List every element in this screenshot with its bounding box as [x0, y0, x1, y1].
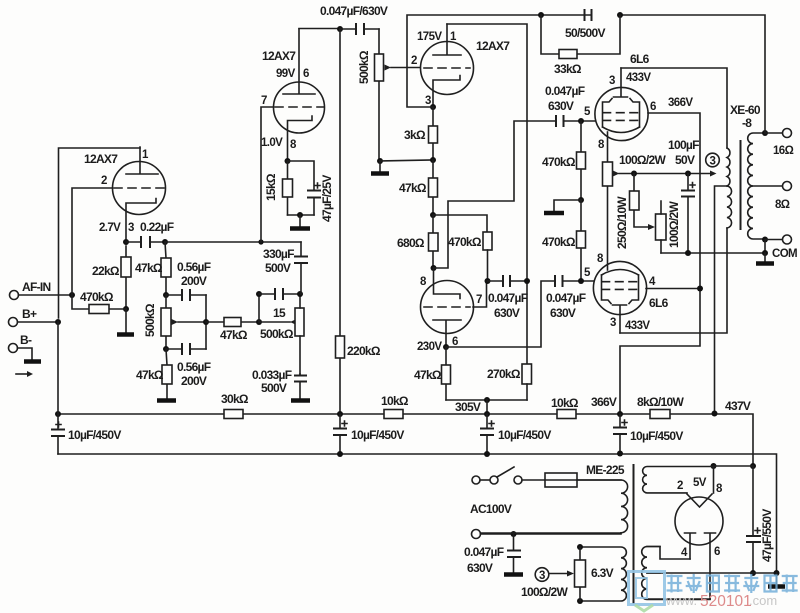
- node bus 10uF3: [484, 451, 490, 457]
- node return/bus corner: [774, 570, 780, 576]
- node after 0.22uF: [162, 239, 168, 245]
- 6L6 upper grids (dashed): [603, 112, 639, 114]
- marker circle 3: [706, 153, 720, 167]
- wire AC lower to primary: [481, 533, 622, 535]
- svg-text:0.033µF: 0.033µF: [252, 368, 292, 382]
- svg-text:AC100V: AC100V: [470, 502, 512, 516]
- wire cathode return line: [661, 252, 765, 254]
- svg-text:433V: 433V: [626, 72, 651, 84]
- OPT secondary winding: [748, 133, 765, 239]
- node V1 cathode junction: [123, 239, 129, 245]
- wire wiper line: [619, 173, 710, 175]
- resistor 680: [397, 215, 438, 268]
- wire grid riser V2: [261, 107, 275, 242]
- wire 0.56 caps bridge: [205, 295, 207, 349]
- svg-text:10µF/450V: 10µF/450V: [630, 429, 683, 443]
- resistor 47k (V4 plate load): [414, 347, 451, 400]
- tube V4 12AX7 envelope: [421, 281, 474, 334]
- svg-text:XE-60: XE-60: [730, 103, 761, 117]
- ground 0.033uF: [291, 398, 310, 403]
- wire V3 plate to x527: [447, 24, 527, 364]
- svg-text:470kΩ: 470kΩ: [542, 155, 576, 169]
- resistor 30k: [221, 392, 249, 419]
- svg-text:www.: www.: [665, 593, 697, 608]
- wire B+ riser to plate: [59, 148, 141, 318]
- svg-text:12AX7: 12AX7: [84, 152, 118, 166]
- capacitor 47uF/25V: [288, 161, 335, 222]
- node 22k/470k junction: [123, 306, 129, 312]
- arrow to mark 3: [710, 171, 717, 177]
- svg-text:12AX7: 12AX7: [262, 49, 296, 63]
- 6L6 upper cathode cup: [603, 127, 640, 133]
- node V4 grid junction: [485, 278, 491, 284]
- node B+ junction: [55, 319, 61, 325]
- capacitor 0.047uF/630V (lower 6L6 grid): [546, 275, 596, 320]
- svg-text:0.22µF: 0.22µF: [140, 220, 174, 234]
- wire V4 plate coupling to lower 6L6: [446, 281, 555, 347]
- wire V2 plate to coupling: [299, 28, 340, 30]
- 6L6 lower beam plates: [602, 275, 639, 304]
- svg-text:200V: 200V: [181, 274, 207, 288]
- resistor 3k: [404, 107, 438, 160]
- svg-text:270kΩ: 270kΩ: [487, 367, 521, 381]
- potentiometer 500k (left): [143, 295, 206, 349]
- svg-text:5V: 5V: [693, 477, 707, 489]
- tube V1 plate: [126, 147, 158, 174]
- node 47k/680 junction: [430, 212, 436, 218]
- svg-text:15: 15: [273, 306, 286, 320]
- svg-text:366V: 366V: [591, 395, 617, 409]
- 6L6 upper cathode lead: [607, 132, 609, 162]
- wire upper plate to OPT: [621, 68, 727, 148]
- svg-text:630V: 630V: [467, 561, 493, 575]
- node bridge/wiper: [203, 319, 209, 325]
- ground 47k: [157, 398, 176, 403]
- resistor 220k: [336, 29, 381, 414]
- svg-text:500V: 500V: [265, 261, 291, 275]
- wire B+ rail: [58, 414, 753, 466]
- svg-text:680Ω: 680Ω: [397, 236, 425, 250]
- node AF-IN junction: [69, 292, 75, 298]
- node 3k bottom (ground tap): [430, 157, 436, 163]
- capacitor 15: [259, 288, 299, 320]
- rectifier plate 2: [705, 533, 716, 599]
- svg-text:0.047µF: 0.047µF: [545, 84, 585, 98]
- node 100uF bottom: [685, 250, 691, 256]
- svg-text:-8: -8: [742, 116, 752, 130]
- terminal 16 ohm: [773, 129, 794, 158]
- svg-text:7: 7: [476, 294, 482, 306]
- svg-text:100Ω/2W: 100Ω/2W: [619, 153, 666, 167]
- node rail left: [55, 411, 61, 417]
- node 220k rail: [337, 411, 343, 417]
- tube 6L6 lower envelope: [593, 261, 646, 314]
- svg-text:366V: 366V: [668, 97, 693, 109]
- svg-text:ME-225: ME-225: [586, 463, 625, 477]
- tube V4 cathode (top): [434, 268, 461, 299]
- node 366V rail: [617, 411, 623, 417]
- svg-text:2: 2: [677, 480, 683, 492]
- svg-text:220kΩ: 220kΩ: [347, 344, 381, 358]
- svg-text:500V: 500V: [261, 381, 287, 395]
- svg-text:COM: COM: [772, 248, 797, 260]
- node wiper line / riser: [256, 319, 262, 325]
- svg-text:10kΩ: 10kΩ: [381, 394, 409, 408]
- node filament left: [711, 463, 717, 469]
- OPT primary winding: [727, 148, 732, 228]
- capacitor 10uF/450V (1): [51, 414, 121, 454]
- node COM tap: [762, 237, 768, 243]
- node pot bottom / ground line: [377, 158, 383, 164]
- node lower 6L6 grid: [578, 278, 584, 284]
- ground AC cap: [504, 572, 523, 577]
- switch AC: [472, 467, 522, 484]
- 6L6 lower plate: [613, 305, 627, 333]
- wire COM tap: [765, 240, 783, 254]
- node 680 bottom: [431, 265, 437, 271]
- tube 6L6 upper envelope: [595, 87, 648, 140]
- resistor 22k: [92, 246, 131, 309]
- tube V3 cathode: [433, 76, 460, 108]
- node grid tap V2: [258, 239, 263, 244]
- resistor 8k/10W: [637, 395, 684, 419]
- terminal COM: [772, 235, 797, 260]
- ME HV winding: [642, 547, 710, 600]
- resistor 470k input: [72, 290, 126, 314]
- wire ground bus: [58, 454, 777, 573]
- capacitor 0.033uF/500V: [252, 368, 307, 399]
- svg-text:8Ω: 8Ω: [775, 199, 790, 211]
- node heater pot bottom: [577, 598, 583, 604]
- capacitor 10uF/450V (4): [613, 414, 683, 453]
- svg-text:100Ω/2W: 100Ω/2W: [521, 585, 568, 599]
- terminal AC lower: [472, 530, 481, 539]
- capacitor 50/500V: [541, 9, 606, 40]
- resistor 470k (V4 grid leak): [448, 232, 492, 281]
- svg-text:6: 6: [650, 101, 656, 113]
- terminal B-: [9, 333, 32, 353]
- node NFB left: [538, 12, 544, 18]
- svg-text:3: 3: [609, 75, 615, 87]
- wire wiper line to pot2: [259, 321, 290, 323]
- OPT core: [740, 140, 742, 230]
- tube V3 plate: [433, 24, 461, 55]
- svg-text:47µF/550V: 47µF/550V: [760, 509, 774, 562]
- svg-text:437V: 437V: [725, 399, 751, 413]
- node 305V rail: [484, 411, 490, 417]
- wire AF-IN to grid riser: [19, 294, 73, 296]
- svg-text:470kΩ: 470kΩ: [80, 290, 114, 304]
- terminal B+: [9, 307, 37, 327]
- wire cathode network bottom: [288, 214, 315, 216]
- node 305V line: [484, 397, 490, 403]
- wire lower screen pin4: [646, 288, 700, 290]
- capacitor 0.047uF/630V (V3 to V4): [488, 275, 528, 320]
- node plate/220k: [337, 26, 343, 32]
- ground main: [776, 573, 778, 585]
- svg-text:6L6: 6L6: [630, 52, 650, 66]
- svg-text:47kΩ: 47kΩ: [414, 368, 442, 382]
- capacitor 100uF/50V: [668, 138, 699, 253]
- wire B+ riser left: [57, 322, 59, 414]
- node riser top: [256, 291, 262, 297]
- svg-text:100Ω/2W: 100Ω/2W: [667, 201, 681, 248]
- capacitor 0.047uF/630V (upper 6L6 grid): [545, 84, 598, 127]
- svg-text:200V: 200V: [181, 374, 207, 388]
- resistor 470k lower: [542, 200, 586, 281]
- svg-text:3: 3: [425, 95, 431, 107]
- svg-text:470kΩ: 470kΩ: [448, 235, 482, 249]
- resistor 47k (middle horizontal): [206, 318, 259, 343]
- tube V2 cathode: [288, 116, 313, 161]
- node 16 ohm tap: [762, 130, 768, 136]
- potentiometer 100R/2W bias: [648, 201, 681, 253]
- tube V4 grid (dashed): [424, 306, 470, 308]
- wire lower plate to OPT: [620, 228, 727, 333]
- ground pot500k: [379, 161, 381, 172]
- node COM/return: [762, 250, 768, 256]
- wire riser to 15 cap line: [258, 294, 260, 322]
- wire plate1 to HV top: [647, 547, 690, 560]
- svg-text:500kΩ: 500kΩ: [143, 303, 157, 337]
- node 47k bottom: [163, 292, 169, 298]
- svg-text:630V: 630V: [548, 99, 574, 113]
- tube V1 cathode: [126, 199, 156, 243]
- node bus 10uF4: [617, 451, 623, 457]
- svg-text:305V: 305V: [455, 400, 481, 414]
- rectifier plate 1: [685, 533, 696, 559]
- tube V2 grid (dashed): [275, 106, 324, 108]
- node V3 cathode junction: [430, 104, 436, 110]
- ME primary winding: [481, 480, 628, 533]
- tube V1 grid (dashed): [114, 187, 164, 189]
- svg-text:175V: 175V: [417, 31, 442, 43]
- potentiometer 500k (right): [260, 294, 304, 374]
- ME 6.3V winding: [580, 547, 626, 601]
- svg-text:B+: B+: [22, 307, 37, 321]
- svg-text:0.047µF: 0.047µF: [488, 291, 528, 305]
- wire filament to B+ riser: [714, 465, 754, 467]
- wire V4 grid to junction: [473, 281, 487, 307]
- wire ground line to V3 cathode chain: [380, 160, 433, 161]
- svg-text:3: 3: [710, 156, 716, 168]
- potentiometer 100R/2W heater: [521, 547, 586, 601]
- svg-text:33kΩ: 33kΩ: [554, 62, 582, 76]
- svg-text:50/500V: 50/500V: [565, 26, 606, 40]
- svg-text:47kΩ: 47kΩ: [136, 368, 164, 382]
- svg-text:47kΩ: 47kΩ: [135, 261, 163, 275]
- capacitor 47uF/550V: [746, 466, 774, 573]
- svg-text:0.047µF: 0.047µF: [464, 545, 504, 559]
- capacitor 0.047uF/630V (AC line): [464, 534, 521, 575]
- node AC cap tap: [511, 531, 517, 537]
- tube V2 12AX7 envelope: [274, 82, 325, 133]
- svg-text:500kΩ: 500kΩ: [260, 327, 294, 341]
- tube V2 plate: [283, 29, 315, 94]
- svg-text:6L6: 6L6: [649, 296, 669, 310]
- 6L6 lower cathode cup: [602, 270, 639, 276]
- svg-text:1.0V: 1.0V: [261, 137, 283, 149]
- 6L6 upper plate: [614, 68, 628, 97]
- ME core: [633, 464, 635, 604]
- svg-text:520101: 520101: [700, 593, 752, 610]
- OPT primary center tap: [715, 186, 728, 414]
- svg-text:3: 3: [128, 222, 134, 234]
- resistor 33k: [541, 15, 620, 76]
- capacitor 10uF/450V (2): [333, 414, 404, 454]
- ground 470k pair: [554, 200, 581, 211]
- svg-text:30kΩ: 30kΩ: [221, 392, 249, 406]
- svg-text:47kΩ: 47kΩ: [220, 328, 248, 342]
- resistor 10k (2): [551, 396, 579, 419]
- resistor 47k (below pot): [136, 349, 172, 399]
- svg-text:8kΩ/10W: 8kΩ/10W: [637, 395, 684, 409]
- svg-text:630V: 630V: [550, 306, 576, 320]
- node wiper/250R: [631, 171, 637, 177]
- svg-text:22kΩ: 22kΩ: [92, 264, 120, 278]
- capacitor 0.56uF upper: [166, 260, 211, 301]
- wire feedback corner: [407, 15, 541, 107]
- wire junction to 470k grid leak: [433, 215, 487, 232]
- svg-text:12AX7: 12AX7: [476, 39, 510, 53]
- resistor 470k upper: [542, 121, 586, 200]
- resistor 15k: [264, 161, 293, 215]
- wire HV center tap return: [647, 572, 777, 574]
- svg-text:3kΩ: 3kΩ: [404, 128, 426, 142]
- svg-text:6: 6: [303, 68, 309, 80]
- node wiper/100uF: [685, 171, 691, 177]
- capacitor 0.56uF lower: [166, 343, 211, 388]
- capacitor 0.047uF/630V (V2-V3): [320, 4, 388, 35]
- svg-text:500kΩ: 500kΩ: [357, 50, 371, 84]
- node NFB right: [617, 12, 623, 18]
- svg-text:AF-IN: AF-IN: [22, 280, 51, 294]
- svg-text:10kΩ: 10kΩ: [551, 396, 579, 410]
- svg-text:3: 3: [539, 570, 545, 582]
- svg-text:250Ω/10W: 250Ω/10W: [615, 196, 629, 249]
- node pot2 top: [297, 291, 303, 297]
- svg-text:3: 3: [610, 317, 616, 329]
- tube V4 plate (bottom): [433, 320, 461, 347]
- svg-text:15kΩ: 15kΩ: [264, 173, 278, 201]
- svg-text:470kΩ: 470kΩ: [542, 235, 576, 249]
- svg-text:100µF: 100µF: [668, 138, 699, 152]
- wire B- to ground: [18, 348, 33, 360]
- chassis arrow mark: [16, 373, 28, 375]
- node 437V rail: [712, 411, 718, 417]
- svg-text:B-: B-: [20, 333, 32, 347]
- marker circle 3 (heater): [535, 568, 549, 582]
- wire B+ to riser: [18, 321, 59, 323]
- ground 22k: [125, 309, 127, 333]
- svg-text:630V: 630V: [494, 306, 520, 320]
- node 470k mid ground: [578, 197, 584, 203]
- node screen join: [697, 286, 703, 292]
- svg-text:2: 2: [411, 55, 417, 67]
- node 500k bottom: [163, 346, 169, 352]
- svg-text:0.56µF: 0.56µF: [177, 260, 211, 274]
- ground B-: [24, 359, 41, 364]
- node V2 cathode: [285, 158, 291, 164]
- resistor 270k: [487, 364, 532, 400]
- svg-text:47kΩ: 47kΩ: [399, 181, 427, 195]
- svg-text:6: 6: [714, 546, 720, 558]
- rectifier filament V: [687, 494, 712, 507]
- terminal AF-IN: [10, 280, 51, 300]
- potentiometer 100R/2W hum: [603, 153, 667, 186]
- svg-text:50V: 50V: [675, 153, 695, 167]
- node V4 plate: [443, 344, 449, 350]
- node V3 plate line: [524, 278, 530, 284]
- capacitor 330uF/500V: [263, 242, 308, 294]
- tube V1 12AX7 envelope: [113, 162, 166, 215]
- svg-text:330µF: 330µF: [263, 247, 294, 261]
- resistor 47k (V3 chain): [399, 160, 438, 215]
- tube V3 grid (dashed): [424, 67, 470, 69]
- svg-text:0.56µF: 0.56µF: [177, 360, 211, 374]
- wire 305V feed line: [446, 399, 527, 401]
- resistor 10k (1): [381, 394, 409, 419]
- node 47uF bottom: [750, 570, 756, 576]
- fuse: [522, 473, 621, 487]
- capacitor 10uF/450V (3): [480, 414, 551, 454]
- node upper 6L6 grid: [578, 118, 584, 124]
- svg-text:10µF/450V: 10µF/450V: [498, 428, 551, 442]
- wire plate2 to HV bottom: [647, 598, 710, 600]
- wire 305V riser: [486, 400, 488, 414]
- ME 5V winding: [643, 467, 714, 493]
- svg-text:10µF/450V: 10µF/450V: [351, 428, 404, 442]
- svg-text:16Ω: 16Ω: [773, 145, 794, 157]
- svg-text:6.3V: 6.3V: [591, 566, 614, 580]
- svg-text:230V: 230V: [417, 341, 442, 353]
- resistor 47k (left chain): [135, 242, 171, 295]
- node cathode net bottom: [297, 212, 303, 218]
- svg-text:47µF/25V: 47µF/25V: [320, 175, 334, 222]
- tube V3 12AX7 envelope: [421, 42, 474, 95]
- svg-text:2.7V: 2.7V: [99, 222, 121, 234]
- 6L6 lower cathode lead: [607, 186, 609, 270]
- svg-text:0.047µF: 0.047µF: [546, 291, 586, 305]
- node heater pot top: [577, 544, 583, 550]
- rectifier pin 8 lead: [713, 466, 715, 493]
- node filament right / B+: [750, 463, 756, 469]
- wire NFB from 16 ohm tap: [620, 15, 765, 133]
- terminal 8 ohm: [775, 182, 792, 212]
- tube 5V rectifier envelope: [675, 497, 723, 545]
- node bus 10uF2: [337, 451, 343, 457]
- wire upper screen: [620, 113, 700, 414]
- svg-text:99V: 99V: [276, 68, 296, 80]
- wire 0.22uF node to 330uF: [165, 241, 301, 243]
- capacitor 0.22uF: [126, 220, 174, 248]
- 6L6 upper beam plates: [603, 99, 640, 128]
- wire V1 grid to AF-IN: [72, 188, 112, 295]
- svg-text:10µF/450V: 10µF/450V: [68, 428, 121, 442]
- svg-text:.com: .com: [749, 593, 777, 608]
- secondary tap 8ohm wire: [753, 185, 783, 187]
- potentiometer 500k (V3 grid): [357, 29, 421, 161]
- svg-text:7: 7: [261, 95, 267, 107]
- wire 16 tap to terminal: [765, 132, 783, 134]
- resistor 250R/10W: [615, 174, 648, 250]
- svg-text:2: 2: [101, 175, 107, 187]
- wire V4 cathode to 6L6 grid coupling: [434, 121, 557, 268]
- svg-text:0.047µF/630V: 0.047µF/630V: [320, 4, 388, 18]
- 6L6 lower grids (dashed): [602, 281, 638, 283]
- ground V2 cathode: [299, 215, 301, 227]
- svg-text:433V: 433V: [625, 320, 650, 332]
